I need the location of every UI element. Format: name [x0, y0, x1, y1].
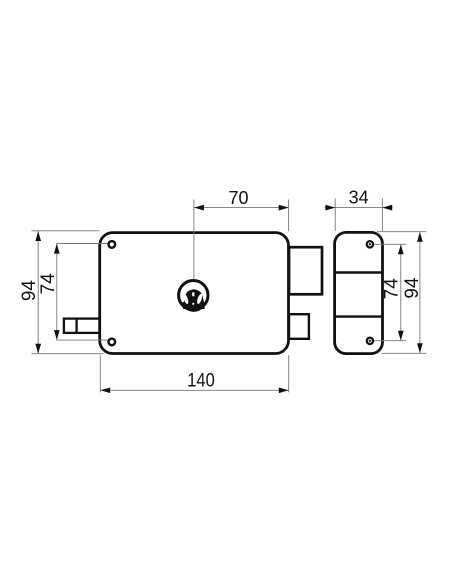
dimension 70 line — [194, 207, 289, 209]
screw hole top-left — [109, 241, 116, 248]
dimension left 94 line — [37, 231, 39, 354]
svg-text:94: 94 — [19, 280, 40, 302]
dimension left 94 arrow bottom — [35, 344, 41, 354]
dimension right 74 arrow bottom — [398, 331, 404, 341]
dimension 70 arrow left — [194, 205, 204, 211]
dimension 140 arrow left — [100, 387, 110, 393]
dimension left 94 extension lines — [32, 231, 104, 354]
dimension right 74 extension lines — [374, 244, 406, 340]
keeper plate outline — [335, 232, 383, 353]
dimension left 74 arrow bottom — [54, 330, 60, 340]
dimension left 74 line — [56, 244, 58, 340]
dimension right 94 arrow bottom — [417, 343, 423, 353]
svg-text:74: 74 — [38, 273, 59, 295]
keeper hole bottom — [367, 338, 373, 344]
dimension left 74 label — [38, 273, 59, 295]
deadbolt — [289, 247, 322, 294]
svg-text:74: 74 — [382, 278, 403, 300]
dimension 70 extension lines — [194, 200, 289, 280]
cylinder key plug — [181, 289, 207, 311]
keeper hole top — [367, 241, 373, 247]
svg-text:70: 70 — [228, 188, 248, 208]
dimension left 74 arrow top — [54, 244, 60, 254]
keeper fold line lower — [335, 315, 383, 317]
dimension right 94 arrow top — [417, 232, 423, 242]
dimension right 94 label — [402, 277, 423, 299]
dimension 34 extension lines — [335, 199, 382, 232]
cylinder ring — [179, 281, 208, 310]
dimension 34 line — [325, 207, 393, 209]
dimension left 74 extension lines — [56, 244, 107, 341]
svg-text:34: 34 — [349, 188, 369, 208]
dimension right 74 arrow top — [398, 245, 404, 255]
keeper fold line upper — [335, 271, 383, 273]
dimension 34 arrow right — [382, 205, 392, 211]
latch bolt right — [289, 314, 309, 339]
dimension right 94 line — [419, 232, 421, 353]
dimension 140 line — [100, 389, 288, 391]
dimension right 74 label — [382, 278, 403, 300]
svg-text:140: 140 — [187, 370, 215, 392]
dimension 34 arrow left — [325, 205, 335, 211]
dimension 70 arrow right — [279, 205, 289, 211]
svg-text:94: 94 — [402, 277, 423, 299]
dimension right 94 extension lines — [377, 232, 426, 354]
screw hole bottom-left — [109, 339, 116, 346]
dimension right 74 line — [400, 245, 402, 341]
dimension 140 extension lines — [100, 355, 288, 392]
latch bolt left — [64, 319, 100, 333]
dimension left 94 label — [19, 280, 40, 302]
dimension 140 arrow right — [279, 387, 289, 393]
dimension left 94 arrow top — [35, 231, 41, 241]
lock body outline — [100, 233, 289, 354]
